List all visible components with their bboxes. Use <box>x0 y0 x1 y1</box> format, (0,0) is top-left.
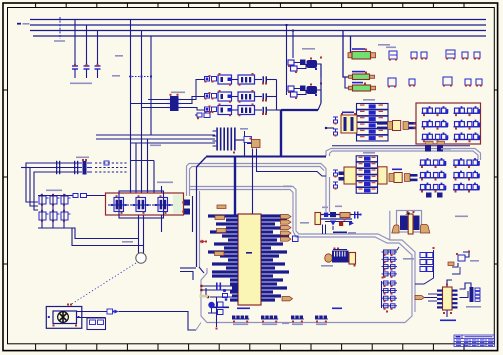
wire R70 branch <box>257 149 327 177</box>
connector F1b <box>470 287 474 302</box>
capacitor C6 <box>263 107 265 113</box>
transistor Q30 <box>458 255 465 261</box>
capacitor C51 <box>384 257 389 261</box>
transistor Q3 <box>218 106 232 115</box>
capacitor C46 <box>330 212 336 217</box>
wire feeder C <box>150 36 152 135</box>
wire feeder E <box>161 186 163 193</box>
fuse F2 <box>81 194 87 198</box>
capacitor C19 <box>465 79 471 85</box>
MCU U1 <box>238 214 261 305</box>
node bus entry label <box>17 23 21 25</box>
relay K1 <box>216 128 218 151</box>
resistor R21 <box>357 110 389 116</box>
wire U20 bottom <box>446 311 448 318</box>
opto U8B <box>453 164 480 166</box>
label motor feed <box>122 241 133 243</box>
wire junction column <box>276 80 278 111</box>
transistor Q10 <box>39 196 46 204</box>
connector J3 <box>325 254 333 262</box>
label line filter <box>378 44 390 46</box>
wire U3 link <box>294 62 300 64</box>
jumper group JP4 <box>315 316 318 319</box>
motor M1 <box>136 253 146 263</box>
wire Q30 drop <box>452 267 460 274</box>
wire drop to FL2 <box>343 31 349 78</box>
wire U20 top <box>447 280 452 287</box>
transistor QU3b <box>307 60 318 68</box>
transistor Q13 <box>39 212 46 220</box>
transformer T2 <box>388 122 393 130</box>
capacitor C1 <box>72 65 78 67</box>
driver Q22 <box>158 198 168 212</box>
wire feeder A <box>130 20 132 194</box>
wire drop gate B <box>292 31 294 59</box>
connector J2 <box>315 213 321 225</box>
red diode marks <box>200 241 202 243</box>
wire J1 dashes <box>95 162 128 164</box>
resistor RN4 <box>217 205 226 209</box>
wire drop to C3 <box>97 31 99 65</box>
transformer T1 <box>341 115 357 133</box>
highlight box SB1 <box>416 103 481 144</box>
capacitor C48 <box>293 236 299 242</box>
resistor R33 <box>356 175 377 181</box>
label tan tag <box>200 295 209 298</box>
capacitor C13 <box>446 50 455 58</box>
label misc 2 <box>300 222 309 224</box>
resistor R32 <box>356 168 377 174</box>
capacitor C50 <box>384 250 389 254</box>
label T1 <box>342 112 354 114</box>
inductor FL3 <box>349 86 353 90</box>
wire long left drop <box>196 167 198 267</box>
resistor R31 <box>205 107 210 112</box>
capacitor C70 <box>420 253 426 258</box>
wire gate bus right <box>320 64 322 103</box>
wire power bus N <box>33 35 486 37</box>
transistor Q11 <box>50 196 57 204</box>
wire dashed link <box>129 76 152 78</box>
label T4 <box>392 169 402 171</box>
resistor R30 <box>356 156 377 162</box>
resistor R23 <box>357 122 389 128</box>
capacitor C10 <box>389 51 397 59</box>
label U1 <box>210 307 229 309</box>
resistor R22 <box>357 116 389 122</box>
title block <box>454 335 495 347</box>
wire branch to T1 <box>326 127 334 129</box>
resistor R21 <box>205 94 210 99</box>
resistor R20 <box>357 104 389 110</box>
capacitor C18 <box>443 77 452 85</box>
wire grid C <box>433 250 435 272</box>
capacitor C23 <box>333 169 338 171</box>
capacitor C16 <box>388 78 396 86</box>
wire link j2 <box>131 160 155 162</box>
parts below J2 <box>325 221 352 223</box>
connector arrows right <box>281 215 292 219</box>
wire link FL3 <box>345 77 349 88</box>
wire U20 right link <box>460 283 472 289</box>
label PB1 <box>157 182 173 184</box>
capacitor C45 <box>324 213 328 218</box>
U1 pins left <box>208 214 238 301</box>
wire T2 to SB1 <box>409 122 417 125</box>
capacitor C52 <box>384 265 389 269</box>
transistor QU4a <box>300 86 306 92</box>
wire sensor to MCU <box>119 312 197 331</box>
wire cap col 2 <box>381 281 383 308</box>
resistor R24 <box>357 129 389 135</box>
wire J1 down legs <box>26 163 38 202</box>
capacitor C14 <box>462 52 468 58</box>
resistor RN2 <box>217 229 227 233</box>
diode DU3 a <box>288 60 294 65</box>
driver Q21 <box>136 198 146 212</box>
transistor Q15 <box>61 212 68 220</box>
capacitor C20 <box>476 79 482 85</box>
opto U6A <box>422 126 449 128</box>
label misc 3 <box>441 148 451 150</box>
resistor R34 <box>356 181 377 187</box>
diode D6 <box>107 309 113 314</box>
capacitor C42 <box>210 296 238 298</box>
capacitor C61 <box>384 289 389 293</box>
resistor RN1 <box>215 216 225 220</box>
inductor FL2 <box>349 75 353 78</box>
capacitor C60 <box>384 281 389 285</box>
label cap rows <box>386 47 396 49</box>
resistor R19b <box>204 113 210 118</box>
wire lavender riser at PB1 <box>187 164 330 213</box>
wire PB1 stubs right <box>184 200 190 206</box>
transistor Q2 <box>218 92 232 101</box>
crystal Y1 <box>203 285 238 287</box>
capacitor C53 <box>384 272 389 276</box>
transistor Q1 <box>218 75 232 84</box>
connector arrow U20 <box>415 296 424 300</box>
opto U5A <box>422 112 449 114</box>
wire J2 drop <box>322 225 324 235</box>
U1 pins right <box>261 214 289 301</box>
wire Q3 link <box>232 109 239 111</box>
transformer T4b <box>378 167 387 184</box>
inductor FL1 <box>348 53 352 58</box>
wire drop gate A <box>286 25 288 31</box>
capacitor C24 <box>333 181 338 183</box>
transistor QU4b <box>307 86 318 94</box>
label U20 <box>440 320 456 322</box>
capacitor C29 <box>244 137 252 143</box>
wire grid top <box>38 195 70 197</box>
crystal sub <box>216 297 218 327</box>
driver box outline <box>119 191 164 218</box>
transformer T5 <box>397 211 422 233</box>
diode DU4 a <box>288 86 294 91</box>
diode DU3 b <box>291 66 298 71</box>
wire grid to fuse row <box>70 195 73 197</box>
wire drop to FL1 <box>351 36 353 55</box>
aux IC U20 <box>443 287 453 310</box>
wire U20 left <box>425 297 438 299</box>
label J3 <box>321 265 333 267</box>
label J1 <box>76 157 89 159</box>
wire U1 top stubs <box>252 149 254 215</box>
wire T5 left riser <box>389 211 391 241</box>
label ladder 1 <box>363 99 375 101</box>
resistor RN3 <box>215 252 225 256</box>
wire U2 out fan <box>181 80 204 100</box>
driver Q20 <box>114 198 124 212</box>
wire power bus L3 <box>30 30 486 32</box>
capacitor C2 <box>84 65 90 67</box>
wire J2 rails <box>321 214 353 216</box>
wire feeder D <box>147 139 149 193</box>
capacitor C62 <box>384 296 389 300</box>
wire to PB1 <box>87 195 107 197</box>
wire bundle to K1 <box>96 134 215 136</box>
resistor R61 <box>448 262 454 266</box>
wire feeder F <box>135 143 137 193</box>
wire drop to C2 <box>86 25 88 64</box>
capacitor C17 <box>409 79 415 85</box>
jumper group JP1 <box>232 316 235 319</box>
capacitor C11 <box>411 52 417 58</box>
label feeder G <box>150 145 161 147</box>
sensor inner frame <box>53 311 77 324</box>
opto U9A <box>420 177 447 179</box>
jumper group JP3 <box>291 316 294 319</box>
resistor R32 <box>212 107 217 112</box>
highlight box PB1 <box>106 193 184 215</box>
label cap col <box>403 258 414 260</box>
wire Q1 to junction <box>267 79 277 81</box>
label F1b <box>466 306 481 308</box>
transistor Q12 <box>61 196 68 204</box>
wire PB1 verticals down <box>138 215 140 253</box>
wire upper navy run <box>332 145 470 147</box>
label misc 1 <box>283 186 292 188</box>
opto U2 <box>238 92 255 101</box>
wire grid verticals <box>41 195 43 228</box>
wire dotted link to sensor <box>70 263 136 305</box>
wire U2 inputs <box>148 99 170 101</box>
jumper group JP2 <box>261 316 264 319</box>
wire SB1 stubs <box>425 145 431 152</box>
capacitor C22 <box>333 128 338 130</box>
label J2 top <box>322 207 328 209</box>
opto U9B <box>453 177 480 179</box>
resistor R31 <box>356 162 377 168</box>
wire J1 lines <box>35 162 80 164</box>
capacitor C3 <box>95 65 101 67</box>
opto U10B <box>453 189 480 191</box>
wire lavender bus loop around MCU area <box>190 187 415 323</box>
label Q30 <box>470 260 479 262</box>
label feeder taps <box>115 55 123 57</box>
wire drop to C1 <box>74 20 76 65</box>
wire Q3 to junction <box>267 109 277 111</box>
wire thick K1 feed <box>197 157 207 167</box>
transistor Q14 <box>50 212 57 220</box>
wire grid to motor 1 <box>70 228 139 239</box>
resistor R19 <box>197 113 202 117</box>
wire power bus L1 <box>30 19 486 21</box>
sub box <box>87 318 106 330</box>
label T5 <box>455 216 468 218</box>
capacitor C12 <box>421 52 427 58</box>
resistor R70 <box>252 140 261 148</box>
wire Q1 link <box>232 79 239 81</box>
capacitor C63 <box>384 304 389 308</box>
label buffer <box>333 232 347 234</box>
tan pads SB1 <box>426 141 434 144</box>
U20 pins <box>437 290 458 309</box>
wire K1 out <box>235 139 244 141</box>
series cap marks J1 <box>56 161 57 165</box>
capacitor C4 <box>263 76 265 82</box>
label capacitor bank <box>70 83 92 85</box>
wire grid bottom <box>38 227 70 229</box>
opto U10A <box>420 189 447 191</box>
capacitor C47 <box>354 212 356 219</box>
label mid bottom <box>282 323 289 325</box>
node bus tap X1 <box>59 17 61 39</box>
capacitor C5 <box>263 93 265 99</box>
wire U4 link <box>294 88 300 90</box>
resistor R11 <box>205 77 210 82</box>
wire thick main feed <box>281 109 318 111</box>
sensor box SN1 <box>46 307 82 329</box>
wire T2 left pair <box>377 122 388 125</box>
wire cluster2 stub <box>426 193 432 198</box>
capacitor C72 <box>420 267 426 272</box>
wire corner bends <box>180 267 196 269</box>
connector arrow bottom <box>282 297 293 301</box>
label U2 <box>171 92 185 94</box>
opto U3 <box>238 106 255 115</box>
resistor R54 <box>104 161 109 165</box>
wire cap col 1 <box>383 250 385 275</box>
wire sensor out <box>77 311 108 313</box>
wire lavender upper run <box>326 149 481 161</box>
connector J1 <box>83 161 87 175</box>
opto U1 <box>238 75 255 84</box>
wire grid to motor 2 <box>72 228 144 246</box>
resistor R60 <box>340 213 350 218</box>
wire Q2 link <box>232 96 239 98</box>
transformer T3 <box>344 167 356 184</box>
resistor R22 <box>212 94 217 99</box>
capacitor C21 <box>333 116 338 118</box>
T5 tan pads <box>392 225 399 233</box>
wire Q2 to junction <box>267 96 277 98</box>
resistor R12 <box>212 77 217 82</box>
op-amp U2 <box>170 96 179 111</box>
wire feeder B <box>141 31 143 194</box>
capacitor C15 <box>474 52 480 58</box>
opto U7A <box>422 139 449 141</box>
transistor QU3a <box>300 60 306 66</box>
diode DU4 b <box>291 92 298 97</box>
label grid <box>46 190 62 192</box>
opto U7B <box>454 139 481 141</box>
label ladder 2 <box>363 152 375 154</box>
fuse F1 <box>73 194 78 198</box>
label gate cluster <box>302 48 315 50</box>
opto U8A <box>420 164 447 166</box>
label K1 <box>240 128 248 130</box>
sensor disc <box>58 312 69 323</box>
label jumpers top <box>237 308 250 310</box>
wire power bus L2 <box>30 24 486 26</box>
capacitor C71 <box>420 260 426 265</box>
resistor R35 <box>356 187 377 193</box>
opto U5B <box>454 112 481 114</box>
transformer T4 <box>389 174 394 182</box>
opto U6B <box>454 126 481 128</box>
wire K1 down <box>244 143 246 157</box>
resistor R25 <box>357 135 389 141</box>
wire feeder G <box>153 161 155 194</box>
